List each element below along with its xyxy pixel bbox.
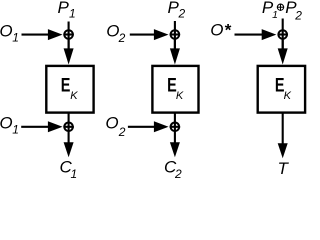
xor X1 horizontal bar bbox=[63, 33, 73, 35]
svg-text:1: 1 bbox=[12, 123, 19, 137]
xor X4 horizontal bar bbox=[170, 126, 180, 128]
xor X5 circle bbox=[278, 30, 287, 39]
wire P1 to XOR1 (vertical, passes through XOR forming plus) bbox=[68, 22, 70, 52]
wire O* to XOR5 bbox=[235, 34, 264, 36]
xor X2 circle bbox=[64, 123, 73, 132]
svg-text:2: 2 bbox=[178, 7, 186, 21]
label E_K #2 bbox=[167, 73, 184, 101]
svg-text:O: O bbox=[210, 21, 223, 40]
label O2 (top) bbox=[106, 21, 125, 45]
svg-text:1: 1 bbox=[12, 30, 19, 44]
wire block #2 to XOR4 bbox=[174, 113, 176, 144]
label O2 (bottom) bbox=[105, 114, 125, 140]
label O1 (top) bbox=[0, 21, 19, 44]
arrowhead XOR3 into block E_K #2 (with shaft) bbox=[170, 38, 180, 64]
svg-text:P: P bbox=[58, 0, 70, 17]
arrowhead O* into XOR5 bbox=[262, 29, 277, 40]
svg-text:1: 1 bbox=[71, 167, 78, 181]
wire O1 to XOR2 bbox=[21, 126, 50, 128]
wire O2 to XOR4 bbox=[128, 126, 156, 128]
xor X3 horizontal bar bbox=[170, 33, 180, 35]
label O* bbox=[210, 21, 232, 40]
xor X1 circle bbox=[64, 30, 73, 39]
xor X2 horizontal bar bbox=[63, 126, 73, 128]
arrowhead XOR1 into block E_K #1 (with shaft) bbox=[64, 38, 74, 64]
arrowhead XOR5 into block E_K #3 (with shaft) bbox=[278, 38, 288, 64]
wire O1 to XOR1 bbox=[22, 34, 51, 36]
label E_K #3 bbox=[275, 73, 292, 101]
svg-text:*: * bbox=[225, 21, 232, 40]
label O1 (bottom) bbox=[0, 114, 19, 137]
block E_K #3 bbox=[258, 66, 305, 113]
label P2 bbox=[168, 0, 186, 21]
wire block #3 to T (with arrowhead) bbox=[278, 113, 288, 158]
svg-text:O: O bbox=[105, 114, 118, 133]
svg-text:2: 2 bbox=[118, 125, 126, 139]
xor X3 circle bbox=[171, 30, 180, 39]
svg-text:O: O bbox=[106, 21, 119, 40]
block E_K #1 bbox=[46, 66, 93, 113]
label P1 bbox=[58, 0, 76, 21]
arrowhead O1 into XOR1 bbox=[48, 29, 63, 40]
arrowhead O2 into XOR3 bbox=[154, 29, 169, 40]
xor X5 horizontal bar bbox=[278, 33, 288, 35]
wire block #1 to XOR2 bbox=[68, 113, 70, 144]
arrowhead XOR4 to C2 bbox=[170, 142, 180, 157]
svg-text:2: 2 bbox=[118, 31, 126, 45]
svg-text:E: E bbox=[61, 73, 71, 96]
svg-text:K: K bbox=[284, 90, 292, 102]
svg-text:K: K bbox=[70, 90, 78, 102]
arrowhead O2 into XOR4 bbox=[154, 121, 169, 132]
block E_K #2 bbox=[152, 66, 198, 113]
svg-text:O: O bbox=[0, 114, 13, 133]
arrowhead XOR2 to C1 bbox=[64, 142, 74, 157]
label E_K #1 bbox=[61, 73, 78, 101]
svg-text:K: K bbox=[176, 90, 184, 102]
wire P2 to XOR3 bbox=[174, 21, 176, 52]
svg-text:T: T bbox=[278, 159, 290, 178]
svg-text:O: O bbox=[0, 21, 13, 40]
wire O2 to XOR3 bbox=[130, 34, 157, 36]
svg-text:2: 2 bbox=[294, 8, 302, 22]
svg-text:1: 1 bbox=[272, 9, 278, 21]
label P1 xor P2 bbox=[262, 0, 302, 22]
wire P1xorP2 to XOR5 bbox=[282, 19, 284, 52]
label C2 bbox=[164, 157, 182, 181]
svg-text:2: 2 bbox=[174, 167, 182, 181]
svg-text:1: 1 bbox=[69, 7, 76, 21]
arrowhead O1 into XOR2 bbox=[48, 121, 63, 132]
label C1 bbox=[60, 157, 78, 181]
xor X4 circle bbox=[171, 123, 180, 132]
